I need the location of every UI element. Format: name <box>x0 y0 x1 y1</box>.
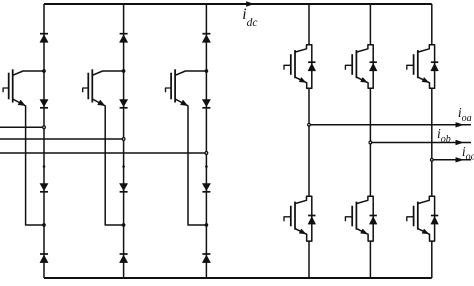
node: emitter junction leg b <box>122 223 126 227</box>
diode Da2 (upper middle) <box>40 100 48 107</box>
wire: input line phase a <box>0 126 44 128</box>
IGBT Sa collector lead <box>13 71 44 75</box>
wire: inverter leg c middle segment <box>431 88 433 196</box>
wire: diode branch of IGBT Tc+ (top) <box>432 45 435 89</box>
wire: inverter leg c lower segment <box>431 241 433 278</box>
arrow for output current i_oa <box>456 123 463 128</box>
IGBT Ta+ (top) emitter arrow <box>299 78 305 83</box>
diode Da1 (top, cathode to +bus) <box>40 33 48 35</box>
diode Db4 (bottom, anode to -bus) <box>120 253 128 255</box>
IGBT Tb- (bottom) body bar <box>355 202 357 230</box>
freewheel diode of IGBT Ta+ (top) <box>308 61 315 63</box>
IGBT Tc+ (top) emitter arrow <box>422 78 428 83</box>
wire: input-stage leg b vertical <box>123 4 125 278</box>
input terminal node phase a <box>43 126 46 129</box>
wire: IGBT Ta+ (top) emitter branch <box>295 77 309 88</box>
IGBT Sa emitter arrow <box>18 100 25 105</box>
IGBT Tc+ (top) gate lead <box>407 65 414 70</box>
input terminal node phase b <box>122 138 125 141</box>
freewheel diode of IGBT Tb- (bottom) <box>370 215 377 217</box>
IGBT Ta+ (top) body bar <box>294 50 296 78</box>
node: emitter junction leg a <box>42 223 46 227</box>
IGBT Tb- (bottom) gate lead <box>345 217 352 222</box>
wire: IGBT Sc emitter to leg bottom <box>175 99 206 225</box>
wire: input-stage leg a vertical <box>43 4 45 278</box>
top DC rail (positive bus) <box>44 3 432 5</box>
wire: IGBT Sa emitter to leg bottom <box>13 99 44 225</box>
IGBT Sa body bar <box>12 69 14 102</box>
diode Dc2 (upper middle) <box>202 100 210 107</box>
wire: IGBT Ta+ (top) collector branch <box>295 45 309 52</box>
wire: inverter leg b middle segment <box>369 88 371 196</box>
diode Db3 (lower middle) <box>120 184 128 191</box>
wire: input line phase c <box>0 152 206 154</box>
IGBT Sb collector lead <box>92 71 123 75</box>
IGBT Sc gate lead <box>166 88 172 92</box>
IGBT Tc- (bottom) body bar <box>417 202 419 230</box>
IGBT Tc+ (top) body bar <box>417 50 419 78</box>
wire: inverter leg a lower segment <box>308 241 310 278</box>
svg-text:idc: idc <box>242 6 257 29</box>
IGBT Tb+ (top) gate bar <box>351 54 353 75</box>
node: small junction leg a <box>43 165 46 168</box>
arrow for dc-link current i_dc <box>246 2 253 7</box>
IGBT Tc- (bottom) gate bar <box>413 206 415 227</box>
wire: IGBT Sb emitter to leg bottom <box>92 99 123 225</box>
IGBT Tb- (bottom) gate bar <box>351 206 353 227</box>
IGBT Tb+ (top) emitter arrow <box>361 78 367 83</box>
wire: output line phase a <box>309 124 471 126</box>
diode Dc1 (top, cathode to +bus) <box>202 33 210 35</box>
wire: diode branch of IGBT Tc- (bottom) <box>432 196 435 241</box>
diode Dc4 (bottom, anode to -bus) <box>202 253 210 255</box>
wire: diode branch of IGBT Tb- (bottom) <box>370 196 373 241</box>
IGBT Ta- (bottom) emitter arrow <box>299 229 305 234</box>
wire: IGBT Tb+ (top) collector branch <box>356 45 370 52</box>
node: collector junction leg a <box>42 69 46 73</box>
wire: inverter leg a upper segment <box>308 4 310 45</box>
diode Db2 (upper middle) <box>120 100 128 107</box>
wire: inverter leg c upper segment <box>431 4 433 45</box>
wire: inverter leg b lower segment <box>369 241 371 278</box>
IGBT Ta+ (top) gate bar <box>290 54 292 75</box>
node: small junction leg b <box>122 165 125 168</box>
IGBT Sb gate lead <box>83 88 89 92</box>
IGBT Tb+ (top) body bar <box>355 50 357 78</box>
IGBT Tc- (bottom) gate lead <box>407 217 414 222</box>
wire: inverter leg b upper segment <box>369 4 371 45</box>
IGBT Tc- (bottom) emitter arrow <box>422 229 428 234</box>
wire: IGBT Tc+ (top) emitter branch <box>418 77 432 88</box>
input terminal node phase c <box>205 152 208 155</box>
IGBT Ta- (bottom) gate bar <box>290 206 292 227</box>
IGBT Ta- (bottom) gate lead <box>284 217 291 222</box>
IGBT Sb gate bar <box>87 73 89 100</box>
wire: IGBT Ta- (bottom) collector branch <box>295 196 309 203</box>
output terminal node phase a <box>308 123 311 126</box>
IGBT Tb- (bottom) emitter arrow <box>361 229 367 234</box>
IGBT Sa gate lead <box>3 88 9 92</box>
IGBT Tc+ (top) gate bar <box>413 54 415 75</box>
wire: diode branch of IGBT Ta+ (top) <box>309 45 312 89</box>
IGBT Sb body bar <box>91 69 93 102</box>
freewheel diode of IGBT Ta- (bottom) <box>308 215 315 217</box>
node: small junction leg c <box>205 165 208 168</box>
bottom DC rail (negative bus) <box>44 277 432 279</box>
wire: IGBT Tc- (bottom) collector branch <box>418 196 432 203</box>
wire: input-stage leg c vertical <box>205 4 207 278</box>
IGBT Sc collector lead <box>175 71 206 75</box>
IGBT Sa gate bar <box>8 73 10 100</box>
diode Db1 (top, cathode to +bus) <box>120 33 128 35</box>
diode Da4 (bottom, anode to -bus) <box>40 253 48 255</box>
wire: output line phase b <box>370 142 471 144</box>
node: collector junction leg b <box>122 69 126 73</box>
IGBT Ta- (bottom) body bar <box>294 202 296 230</box>
wire: IGBT Tb+ (top) emitter branch <box>356 77 370 88</box>
IGBT Sc gate bar <box>170 73 172 100</box>
wire: output line phase c <box>432 159 471 161</box>
wire: input line phase b <box>0 138 124 140</box>
wire: inverter leg a middle segment <box>308 88 310 196</box>
arrow for output current i_oc <box>456 158 463 163</box>
node: emitter junction leg c <box>205 223 209 227</box>
output terminal node phase b <box>369 141 372 144</box>
wire: diode branch of IGBT Ta- (bottom) <box>309 196 312 241</box>
wire: IGBT Tc- (bottom) emitter branch <box>418 229 432 242</box>
wire: IGBT Tb- (bottom) emitter branch <box>356 229 370 242</box>
svg-text:ioa: ioa <box>458 105 472 124</box>
diode Da3 (lower middle) <box>40 184 48 191</box>
freewheel diode of IGBT Tb+ (top) <box>370 61 377 63</box>
freewheel diode of IGBT Tc- (bottom) <box>431 215 438 217</box>
wire: diode branch of IGBT Tb+ (top) <box>370 45 373 89</box>
arrow for output current i_ob <box>456 140 463 145</box>
IGBT Sc emitter arrow <box>181 100 188 105</box>
IGBT Sc body bar <box>174 69 176 102</box>
IGBT Tb+ (top) gate lead <box>345 65 352 70</box>
IGBT Ta+ (top) gate lead <box>284 65 291 70</box>
diode Dc3 (lower middle) <box>202 184 210 191</box>
freewheel diode of IGBT Tc+ (top) <box>431 61 438 63</box>
wire: IGBT Tb- (bottom) collector branch <box>356 196 370 203</box>
output terminal node phase c <box>430 158 433 161</box>
wire: IGBT Tc+ (top) collector branch <box>418 45 432 52</box>
wire: IGBT Ta- (bottom) emitter branch <box>295 229 309 242</box>
IGBT Sb emitter arrow <box>98 100 105 105</box>
node: collector junction leg c <box>205 69 209 73</box>
